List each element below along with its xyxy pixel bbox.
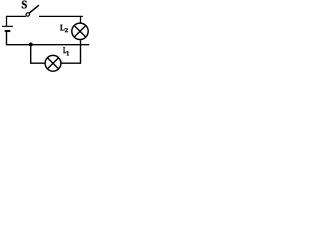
lamp L2 cross X — [74, 26, 86, 38]
lamp L1 cross X — [47, 58, 58, 69]
wire right vertical from L2 bottom down to bottom corner — [80, 40, 82, 63]
junction node dot — [29, 43, 33, 47]
label L1 'L' — [63, 47, 66, 53]
wire left vertical and middle horizontal — [7, 32, 90, 45]
switch S pivot circle — [26, 13, 29, 16]
label L2 subscript 2 — [65, 28, 68, 32]
wire L2 top tick — [80, 16, 82, 22]
label L2 'L' — [60, 25, 64, 31]
wire top right segment from switch contact to right end — [39, 15, 83, 17]
lamp L1 circle — [45, 55, 61, 71]
battery short plate (-) — [5, 30, 11, 32]
label S (switch) — [22, 1, 27, 9]
lamp L2 circle — [72, 23, 88, 39]
label L1 subscript 1 — [67, 51, 69, 56]
wire from L1 right side to right vertical — [61, 62, 81, 64]
wire L1 branch: down from junction, right to lamp L1 — [31, 45, 46, 64]
wire top-left corner: battery + up and right to switch — [7, 16, 26, 25]
battery long plate (+) — [2, 25, 13, 27]
switch S lever (open) — [29, 5, 39, 13]
